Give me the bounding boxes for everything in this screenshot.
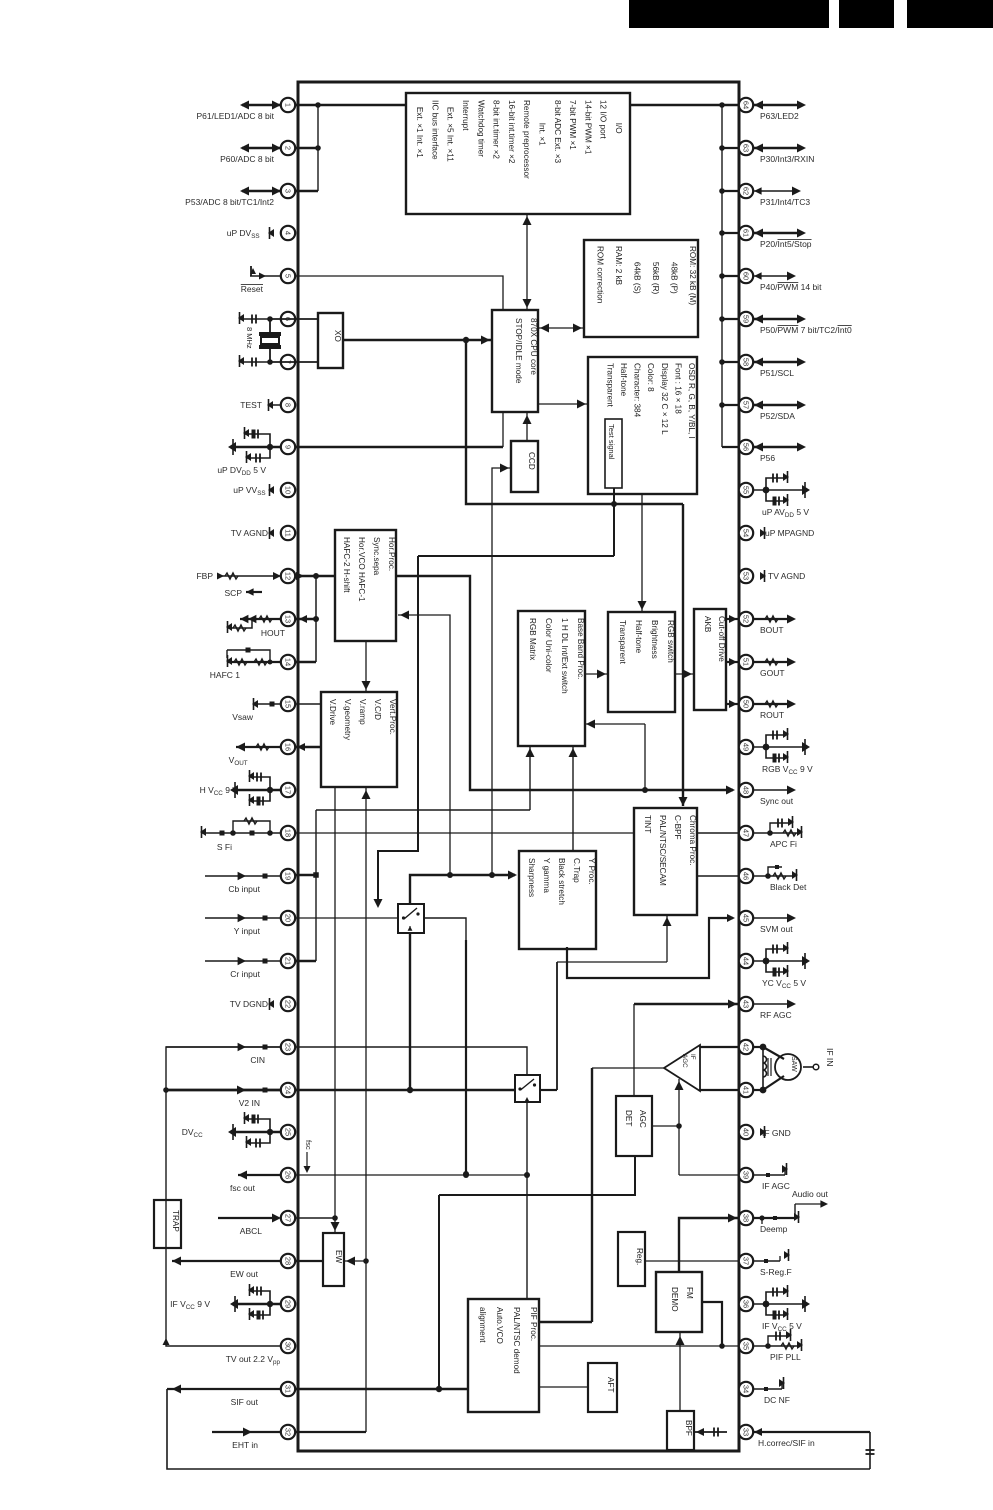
svg-text:RGB Matrix: RGB Matrix bbox=[528, 618, 537, 660]
svg-text:IIC bus interface: IIC bus interface bbox=[430, 100, 439, 160]
block ROM/RAM bbox=[584, 240, 698, 337]
wire ABCL to EW bbox=[295, 1217, 335, 1219]
pin 43 circle bbox=[739, 997, 753, 1011]
pin 19 label Cb input bbox=[228, 884, 260, 894]
pin 52 circle bbox=[739, 612, 753, 626]
svg-text:P52/SDA: P52/SDA bbox=[760, 411, 795, 421]
pin 57 ext bidir arrow bbox=[753, 401, 806, 410]
svg-text:IF IN: IF IN bbox=[825, 1048, 835, 1066]
svg-text:APC Fi: APC Fi bbox=[770, 839, 797, 849]
pin 8 label TEST bbox=[240, 400, 262, 410]
svg-text:5: 5 bbox=[284, 274, 293, 278]
pin 22 label TV DGND bbox=[230, 999, 268, 1009]
pin 49 circle bbox=[739, 740, 753, 754]
block BPF bbox=[667, 1411, 694, 1450]
svg-text:12 I/O port: 12 I/O port bbox=[599, 100, 608, 139]
svg-text:54: 54 bbox=[742, 529, 751, 537]
svg-text:P63/LED2: P63/LED2 bbox=[760, 111, 799, 121]
svg-text:ROUT: ROUT bbox=[760, 710, 784, 720]
svg-text:36: 36 bbox=[742, 1300, 751, 1308]
svg-text:4: 4 bbox=[284, 231, 293, 235]
pin 54 label uP MPAGND bbox=[765, 528, 814, 538]
pin 28 ext EW out arrow bbox=[172, 1257, 281, 1266]
black header bar 3 bbox=[907, 0, 993, 28]
block RGB switch bbox=[608, 612, 675, 712]
wire Cb input stub bbox=[295, 872, 319, 878]
svg-text:60: 60 bbox=[742, 272, 751, 280]
pin 14 circle bbox=[281, 655, 295, 669]
pin 58 circle bbox=[739, 355, 753, 369]
svg-text:V.geometry: V.geometry bbox=[343, 699, 352, 741]
pin 63 label P30/Int3/RXIN bbox=[760, 154, 814, 164]
pin 44 ext power network bbox=[753, 942, 810, 977]
pin 56 circle bbox=[739, 440, 753, 454]
svg-text:45: 45 bbox=[742, 914, 751, 922]
pin 15 ext Vsaw cap bbox=[252, 698, 281, 710]
pin 23 label CIN bbox=[250, 1055, 265, 1065]
pin 61 label P20/Int5/Stop bbox=[760, 239, 812, 249]
pin 37 circle bbox=[739, 1254, 753, 1268]
svg-text:Hor.Proc.: Hor.Proc. bbox=[387, 537, 396, 571]
wire AGC det loop bbox=[436, 1156, 635, 1392]
pin 54 circle bbox=[739, 526, 753, 540]
pin 9 ext power network bbox=[228, 427, 281, 463]
svg-text:ABCL: ABCL bbox=[240, 1226, 262, 1236]
svg-text:SAW: SAW bbox=[790, 1056, 797, 1072]
svg-text:TINT: TINT bbox=[643, 815, 652, 833]
block Base Band Proc bbox=[518, 611, 585, 746]
pin 20 label Y input bbox=[234, 926, 261, 936]
pin 58 ext bidir arrow bbox=[753, 358, 806, 367]
svg-text:Chroma Proc.: Chroma Proc. bbox=[688, 815, 697, 866]
wire S2 bottom to PIF bbox=[524, 1102, 530, 1299]
pin 52 label BOUT bbox=[760, 625, 784, 635]
pin 53 ext gnd bbox=[760, 570, 766, 582]
pin 37 ext cap bbox=[753, 1249, 790, 1263]
svg-text:51: 51 bbox=[742, 658, 751, 666]
svg-text:3: 3 bbox=[284, 189, 293, 193]
pin 46 ext Black Det net bbox=[753, 865, 798, 881]
pin 34 label DC NF bbox=[764, 1395, 790, 1405]
wire FMDEMO to pin36 bbox=[702, 1302, 725, 1349]
pin 32 label EHT in bbox=[232, 1440, 258, 1450]
svg-text:HOUT: HOUT bbox=[261, 628, 285, 638]
svg-text:Vert.Proc.: Vert.Proc. bbox=[388, 699, 397, 735]
svg-text:EW: EW bbox=[334, 1250, 343, 1263]
svg-text:2: 2 bbox=[284, 146, 293, 150]
pin 61 circle bbox=[739, 226, 753, 240]
svg-text:uP MPAGND: uP MPAGND bbox=[765, 528, 814, 538]
svg-text:STOP/IDLE mode: STOP/IDLE mode bbox=[514, 318, 523, 384]
svg-text:TV AGND: TV AGND bbox=[231, 528, 268, 538]
pin 36 label IF VCC 5 V bbox=[762, 1321, 802, 1333]
pin 1 ext bidir arrow bbox=[240, 101, 281, 110]
svg-text:Int. ×1: Int. ×1 bbox=[538, 100, 547, 146]
svg-text:Hor.VCO HAFC-1: Hor.VCO HAFC-1 bbox=[357, 537, 366, 602]
pin 46 circle bbox=[739, 869, 753, 883]
svg-text:42: 42 bbox=[742, 1043, 751, 1051]
wire SIF out from PIF bbox=[295, 1388, 468, 1390]
block OSD bbox=[588, 357, 697, 494]
svg-text:1 H DL Int/Ext switch: 1 H DL Int/Ext switch bbox=[560, 618, 569, 694]
svg-text:61: 61 bbox=[742, 229, 751, 237]
pin 2 ext bidir arrow bbox=[240, 144, 281, 153]
svg-text:Black stretch: Black stretch bbox=[557, 858, 566, 905]
wire SVM out from YProc bbox=[567, 914, 735, 978]
svg-text:RGB switch: RGB switch bbox=[666, 620, 675, 663]
wire S1 to Y Proc bbox=[410, 871, 517, 905]
block Test signal bbox=[605, 419, 622, 488]
wire EW out bbox=[295, 1260, 323, 1262]
wire test signal path bbox=[374, 488, 615, 908]
svg-text:64kB (S): 64kB (S) bbox=[633, 246, 642, 294]
pin 11 circle bbox=[281, 526, 295, 540]
svg-text:C.Trap: C.Trap bbox=[572, 858, 581, 883]
svg-text:14: 14 bbox=[284, 658, 293, 666]
wire AGCDET to IFAGC bbox=[652, 1079, 684, 1175]
svg-text:26: 26 bbox=[284, 1171, 293, 1179]
pin 62 circle bbox=[739, 184, 753, 198]
svg-text:OSD R, G, B, Y/BL, I: OSD R, G, B, Y/BL, I bbox=[687, 363, 696, 439]
pin 36 circle bbox=[739, 1297, 753, 1311]
pin 23 circle bbox=[281, 1040, 295, 1054]
svg-text:fsc: fsc bbox=[304, 1140, 313, 1150]
svg-text:33: 33 bbox=[742, 1428, 751, 1436]
pin 25 circle bbox=[281, 1125, 295, 1139]
svg-text:IF: IF bbox=[689, 1054, 696, 1060]
svg-text:Cb input: Cb input bbox=[228, 884, 260, 894]
pin 5 label Reset bbox=[241, 284, 264, 294]
pin 44 circle bbox=[739, 954, 753, 968]
node IF IN label bbox=[825, 1048, 835, 1066]
pin 32 circle bbox=[281, 1425, 295, 1439]
wire fsc trunk bbox=[466, 340, 688, 806]
pin 12 ext FBP arrow bbox=[217, 572, 281, 580]
svg-text:18: 18 bbox=[284, 829, 293, 837]
svg-text:8 MHz: 8 MHz bbox=[245, 327, 254, 349]
svg-text:V2 IN: V2 IN bbox=[239, 1098, 260, 1108]
pin 59 circle bbox=[739, 312, 753, 326]
wire V2 to S1 bottom bbox=[407, 933, 413, 1093]
pin 21 ext input arrow bbox=[205, 957, 281, 965]
svg-text:48: 48 bbox=[742, 786, 751, 794]
pin 44 label YC VCC 5 V bbox=[762, 978, 806, 990]
wire pin39 IF AGC bbox=[679, 1174, 739, 1176]
pin 54 ext gnd bbox=[760, 527, 766, 539]
svg-text:CCD: CCD bbox=[527, 452, 536, 470]
pin 15 circle bbox=[281, 697, 295, 711]
wire pin33 to BPF bbox=[694, 1428, 727, 1437]
block Y Proc bbox=[519, 851, 596, 949]
pin 31 ext SIF loop bbox=[167, 1385, 870, 1470]
pin 14 label HAFC 1 bbox=[210, 670, 241, 680]
pin 64 label P63/LED2 bbox=[760, 111, 799, 121]
svg-text:27: 27 bbox=[284, 1214, 293, 1222]
svg-text:53: 53 bbox=[742, 572, 751, 580]
block Hor.Proc bbox=[335, 530, 396, 641]
svg-text:8: 8 bbox=[284, 403, 293, 407]
wire FBP pin bus bbox=[313, 576, 319, 662]
pin 35 circle bbox=[739, 1339, 753, 1353]
svg-text:EW out: EW out bbox=[230, 1269, 259, 1279]
wire Reset to CPU bbox=[295, 276, 503, 310]
wire S2 to Chroma bbox=[541, 915, 672, 1090]
wire YProc to BaseBand bbox=[569, 746, 578, 851]
block Chroma Proc bbox=[634, 808, 697, 915]
svg-text:P30/Int3/RXIN: P30/Int3/RXIN bbox=[760, 154, 814, 164]
pin 8 ext tick bbox=[267, 399, 281, 411]
svg-text:Vsaw: Vsaw bbox=[232, 712, 254, 722]
pin 56 ext bidir arrow bbox=[753, 443, 806, 452]
pin 26 circle bbox=[281, 1168, 295, 1182]
wire HAFC1 stub bbox=[295, 661, 316, 663]
svg-text:Font : 16 × 18: Font : 16 × 18 bbox=[673, 363, 682, 414]
block FM DEMO bbox=[656, 1272, 702, 1332]
svg-text:49: 49 bbox=[742, 743, 751, 751]
pin 11 ext gnd bbox=[268, 527, 274, 539]
pin 4 ext gnd bbox=[268, 227, 274, 239]
svg-text:Ext. ×5 Int. ×11: Ext. ×5 Int. ×11 bbox=[446, 100, 455, 162]
svg-text:EHT in: EHT in bbox=[232, 1440, 258, 1450]
svg-text:56kB (R): 56kB (R) bbox=[651, 246, 660, 294]
pin 29 ext power network bbox=[230, 1284, 281, 1320]
pin 41 circle bbox=[739, 1083, 753, 1097]
pin 51 circle bbox=[739, 655, 753, 669]
wire pin41 to IFAGC bbox=[700, 1089, 739, 1091]
pin 52 ext BOUT bbox=[753, 615, 796, 624]
block Cut-off Drive AKB bbox=[694, 609, 726, 710]
pin 9 label uP DVDD 5 V bbox=[217, 465, 266, 477]
svg-text:41: 41 bbox=[742, 1086, 751, 1094]
svg-text:48kB (P): 48kB (P) bbox=[670, 246, 679, 294]
pin 60 label P40/PWM 14 bit bbox=[760, 282, 822, 292]
pin 47 circle bbox=[739, 826, 753, 840]
svg-text:Reset: Reset bbox=[241, 284, 264, 294]
block EW bbox=[323, 1233, 344, 1286]
svg-text:PAL/NTSC/SECAM: PAL/NTSC/SECAM bbox=[658, 815, 667, 886]
pin 29 label IF VCC 9 V bbox=[170, 1299, 210, 1311]
svg-text:Ext. ×1 Int. ×1: Ext. ×1 Int. ×1 bbox=[415, 100, 424, 158]
pin 38 circle bbox=[739, 1211, 753, 1225]
svg-text:56: 56 bbox=[742, 443, 751, 451]
pin 49 label RGB VCC 9 V bbox=[762, 764, 813, 776]
pin 13 label HOUT bbox=[261, 628, 285, 638]
pin 51 label GOUT bbox=[760, 668, 785, 678]
svg-text:alignment: alignment bbox=[478, 1307, 487, 1343]
pin 45 circle bbox=[739, 911, 753, 925]
svg-text:SIF out: SIF out bbox=[231, 1397, 259, 1407]
pin 1 circle bbox=[281, 98, 295, 112]
pin 45 label SVM out bbox=[760, 924, 793, 934]
svg-text:FM: FM bbox=[685, 1287, 694, 1299]
pin 63 circle bbox=[739, 141, 753, 155]
svg-text:Sync.sepa: Sync.sepa bbox=[372, 537, 381, 576]
pin 40 circle bbox=[739, 1125, 753, 1139]
svg-text:S Fi: S Fi bbox=[217, 842, 232, 852]
pin 27 ext ABCL arrow bbox=[218, 1214, 281, 1223]
svg-text:15: 15 bbox=[284, 700, 293, 708]
wire IF amp to PIF bbox=[538, 1068, 664, 1322]
svg-text:37: 37 bbox=[742, 1257, 751, 1265]
pin 25 ext power network bbox=[228, 1112, 281, 1148]
pin 3 ext bidir arrow bbox=[240, 187, 281, 196]
pin 17 label H VCC 9 V bbox=[200, 785, 239, 797]
pin 7 circle bbox=[281, 355, 295, 369]
svg-text:FBP: FBP bbox=[196, 571, 213, 581]
svg-text:RF AGC: RF AGC bbox=[760, 1010, 792, 1020]
black header bar 1 bbox=[629, 0, 829, 28]
wire CbCr to BaseBand bbox=[316, 746, 535, 810]
svg-text:Sharpness: Sharpness bbox=[527, 858, 536, 897]
pin 63 ext bidir arrow bbox=[753, 144, 806, 153]
pin 17 ext power network bbox=[230, 770, 281, 806]
block CCD bbox=[511, 441, 538, 492]
pin 40 label IF GND bbox=[762, 1128, 791, 1138]
pin 20 ext input arrow bbox=[205, 914, 281, 922]
pin 47 label APC Fi bbox=[770, 839, 797, 849]
pin 19 ext input arrow bbox=[205, 872, 281, 880]
svg-text:Half-tone: Half-tone bbox=[619, 363, 628, 397]
pin 22 circle bbox=[281, 997, 295, 1011]
svg-text:Interrupt: Interrupt bbox=[461, 100, 470, 131]
svg-text:16: 16 bbox=[284, 743, 293, 751]
block AFT bbox=[588, 1363, 617, 1412]
wire into HorProc right bbox=[398, 611, 453, 879]
svg-text:AGC: AGC bbox=[638, 1110, 647, 1128]
pin 38 label Deemp bbox=[760, 1224, 788, 1234]
pin 40 ext gnd bbox=[760, 1126, 766, 1138]
pin 32 ext EHT arrow bbox=[212, 1428, 281, 1437]
pin 4 circle bbox=[281, 226, 295, 240]
svg-text:Auto.VCO: Auto.VCO bbox=[495, 1307, 504, 1344]
wire Y input to switch S1 bbox=[295, 917, 398, 919]
svg-text:870X CPU core: 870X CPU core bbox=[529, 318, 538, 375]
pin 4 label uP DVSS bbox=[227, 228, 262, 240]
pin 10 ext gnd bbox=[268, 484, 274, 496]
pin 31 circle bbox=[281, 1382, 295, 1396]
wire CCD to CPU bbox=[523, 413, 532, 441]
svg-text:Y Proc.: Y Proc. bbox=[587, 858, 596, 885]
svg-text:P50/PWM 7 bit/TC2/Int0: P50/PWM 7 bit/TC2/Int0 bbox=[760, 325, 852, 335]
svg-text:23: 23 bbox=[284, 1043, 293, 1051]
wire S1 out to fsc bbox=[424, 918, 469, 1177]
svg-text:PIF Proc.: PIF Proc. bbox=[529, 1307, 538, 1341]
svg-text:8-bit ADC Ext. ×3: 8-bit ADC Ext. ×3 bbox=[553, 100, 562, 163]
wire BlackDet stub bbox=[697, 875, 739, 877]
svg-text:58: 58 bbox=[742, 358, 751, 366]
svg-text:fsc out: fsc out bbox=[230, 1183, 256, 1193]
svg-text:21: 21 bbox=[284, 957, 293, 965]
svg-text:DEMO: DEMO bbox=[670, 1287, 679, 1312]
svg-text:31: 31 bbox=[284, 1385, 293, 1393]
wire VertProc EHT line bbox=[362, 787, 371, 1432]
svg-text:XO: XO bbox=[333, 330, 342, 342]
pin 18 circle bbox=[281, 826, 295, 840]
svg-text:22: 22 bbox=[284, 1000, 293, 1008]
svg-text:62: 62 bbox=[742, 187, 751, 195]
pin 46 label Black Det bbox=[770, 882, 807, 892]
svg-text:P53/ADC 8 bit/TC1/Int2: P53/ADC 8 bit/TC1/Int2 bbox=[185, 197, 274, 207]
svg-text:38: 38 bbox=[742, 1214, 751, 1222]
pin 19 circle bbox=[281, 869, 295, 883]
svg-text:P56: P56 bbox=[760, 453, 775, 463]
pin 61 ext bidir arrow bbox=[753, 229, 806, 238]
block Reg bbox=[618, 1232, 645, 1286]
svg-text:Transparent: Transparent bbox=[605, 363, 614, 408]
svg-text:20: 20 bbox=[284, 914, 293, 922]
pin 43 ext RF AGC arrow bbox=[753, 1000, 796, 1009]
wire FBP to HorProc bbox=[295, 572, 335, 580]
wire Cb-Cr bus bbox=[295, 810, 316, 961]
pin 34 circle bbox=[739, 1382, 753, 1396]
pin 29 circle bbox=[281, 1297, 295, 1311]
pin 3 label P53/ADC 8 bit/TC1/Int2 bbox=[185, 197, 274, 207]
svg-text:28: 28 bbox=[284, 1257, 293, 1265]
pin 1 label P61/LED1/ADC 8 bit bbox=[197, 111, 275, 121]
pin 50 ext ROUT bbox=[753, 700, 796, 709]
pin 16 label VOUT bbox=[229, 755, 250, 767]
pin 35 label PIF PLL bbox=[770, 1352, 801, 1362]
svg-text:Test signal: Test signal bbox=[607, 424, 616, 460]
svg-text:39: 39 bbox=[742, 1171, 751, 1179]
svg-text:DET: DET bbox=[624, 1110, 633, 1126]
svg-text:V.ramp: V.ramp bbox=[358, 699, 367, 725]
svg-text:47: 47 bbox=[742, 829, 751, 837]
pin 10 label uP VVSS bbox=[233, 485, 268, 497]
pin 5 ext reset circuit bbox=[250, 266, 281, 280]
pin 15 label Vsaw bbox=[232, 712, 254, 722]
switch S2 video select bbox=[515, 1075, 540, 1102]
pin 24 ext input wire bbox=[165, 1086, 281, 1095]
pin 50 circle bbox=[739, 697, 753, 711]
pin 10 circle bbox=[281, 483, 295, 497]
pin 50 label ROUT bbox=[760, 710, 784, 720]
svg-text:52: 52 bbox=[742, 615, 751, 623]
pin 42 circle bbox=[739, 1040, 753, 1054]
capacitor C2 xtal bbox=[238, 355, 268, 367]
svg-text:Y gamma: Y gamma bbox=[542, 858, 551, 893]
svg-text:SVM out: SVM out bbox=[760, 924, 793, 934]
pin 55 ext power network bbox=[753, 471, 810, 506]
svg-text:Color Uni-color: Color Uni-color bbox=[544, 618, 553, 673]
svg-text:59: 59 bbox=[742, 315, 751, 323]
pin 12 label FBP SCP bbox=[196, 571, 262, 598]
pin 57 circle bbox=[739, 398, 753, 412]
svg-text:63: 63 bbox=[742, 144, 751, 152]
pin 28 label EW out bbox=[230, 1269, 259, 1279]
svg-text:9: 9 bbox=[284, 445, 293, 449]
pin 48 circle bbox=[739, 783, 753, 797]
svg-text:29: 29 bbox=[284, 1300, 293, 1308]
pin 60 circle bbox=[739, 269, 753, 283]
wire VertProc geometry line bbox=[331, 787, 340, 1233]
pin 37 label S-Reg.F bbox=[760, 1267, 792, 1277]
pin 64 circle bbox=[739, 98, 753, 112]
svg-text:TRAP: TRAP bbox=[171, 1210, 180, 1232]
pin 62 label P31/Int4/TC3 bbox=[760, 197, 810, 207]
pin 47 ext APC filter bbox=[753, 816, 803, 838]
pin 60 ext out arrow bbox=[753, 272, 796, 281]
wire FMDEMO to Deemp bbox=[679, 1214, 739, 1273]
svg-text:7-bit PWM ×1: 7-bit PWM ×1 bbox=[568, 100, 577, 150]
svg-text:Y input: Y input bbox=[234, 926, 261, 936]
block AGC DET bbox=[616, 1096, 652, 1156]
pin 6-7 label 8 MHz bbox=[245, 327, 254, 349]
wire CIN to S2 top bbox=[295, 1047, 527, 1075]
svg-text:P51/SCL: P51/SCL bbox=[760, 368, 794, 378]
svg-text:SCP: SCP bbox=[225, 588, 243, 598]
wire right port bus bbox=[719, 105, 739, 447]
